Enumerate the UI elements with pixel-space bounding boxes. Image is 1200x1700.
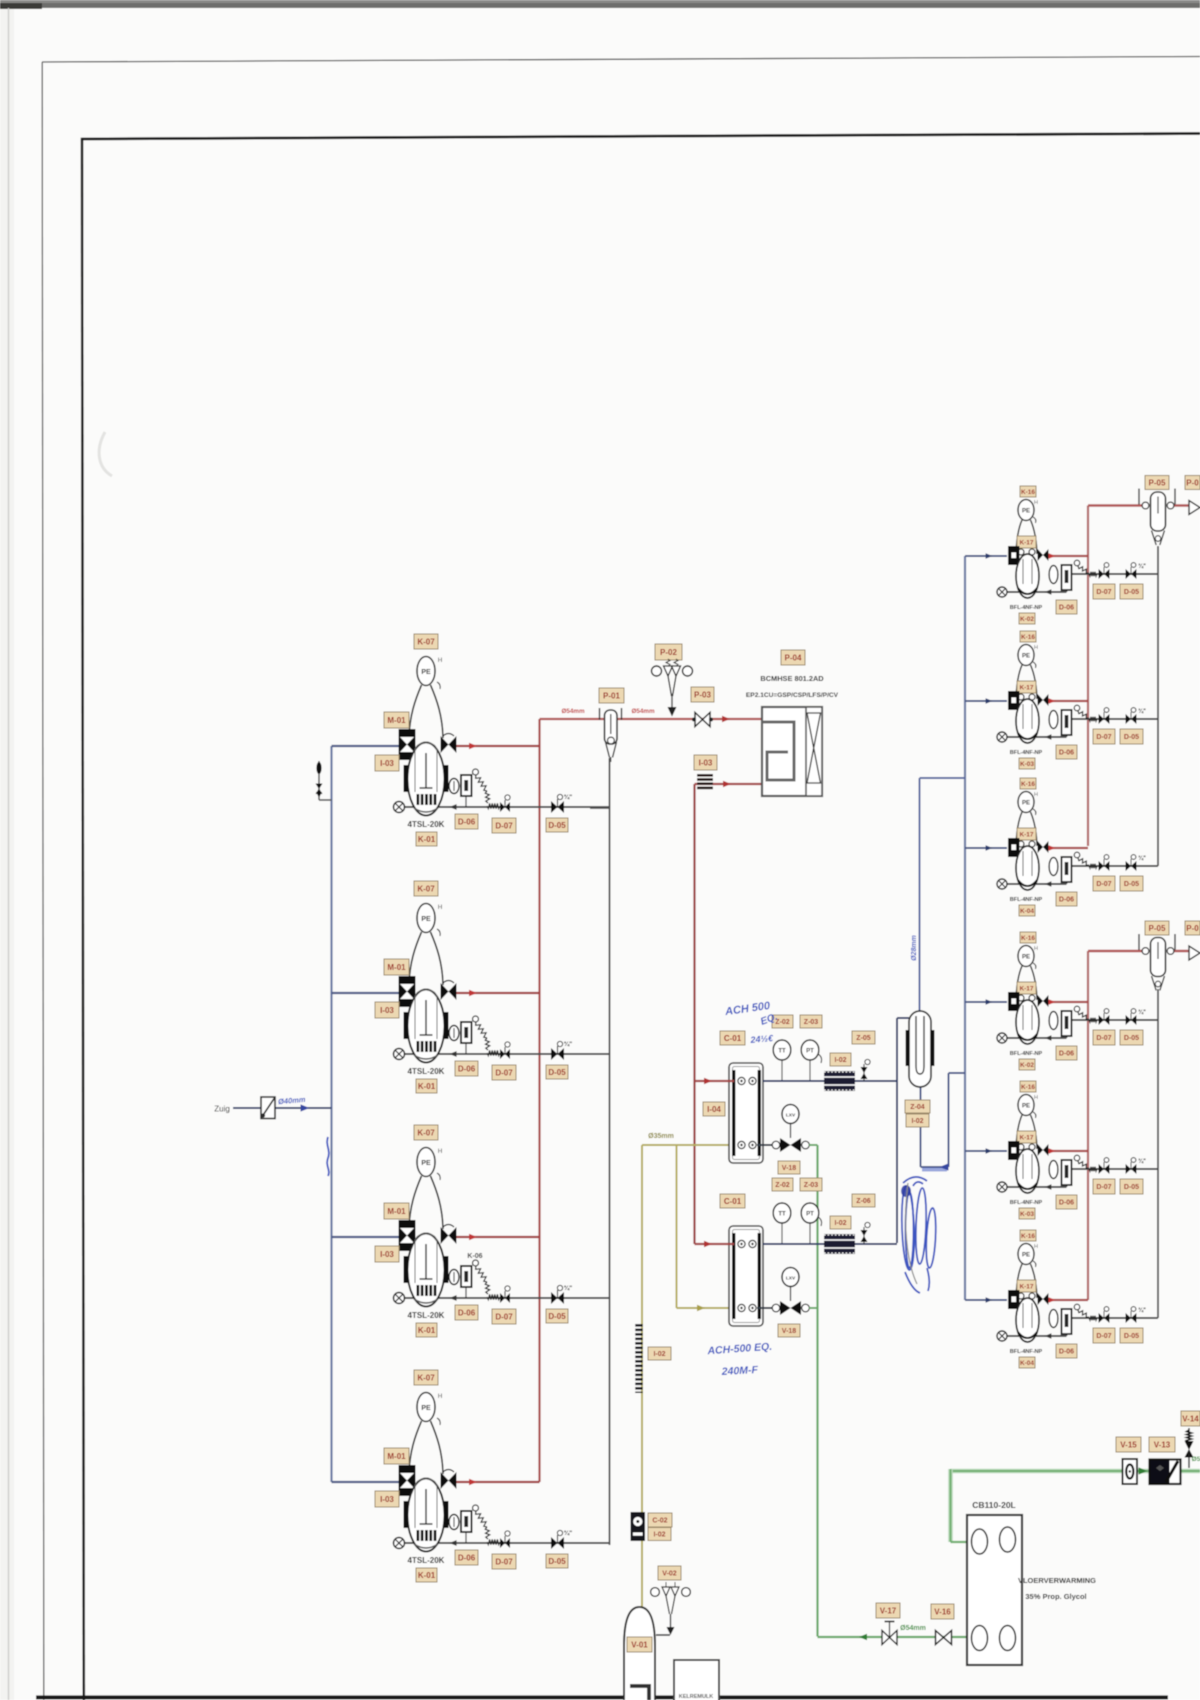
tag K-03	[1019, 1208, 1035, 1219]
tag D-07	[492, 1554, 516, 1569]
tag D-05	[1120, 729, 1143, 744]
flow arrow on drain	[1045, 1333, 1052, 1338]
wire: suction stub (blue)	[332, 1236, 400, 1238]
svg-text:V-18: V-18	[782, 1328, 797, 1335]
wire: crankcase drain (grey)	[1002, 1186, 1067, 1188]
wire: glycol supply main (green)	[951, 1469, 1200, 1474]
strainer on Zuig line	[261, 1097, 275, 1119]
compressor vessel	[1016, 554, 1039, 598]
svg-text:Z-03: Z-03	[804, 1182, 819, 1189]
motor block	[1008, 546, 1020, 565]
flow arrow (red)	[469, 743, 477, 749]
tag M-01	[384, 712, 409, 728]
tag D-07	[492, 1309, 516, 1324]
wire: crankcase drain (grey)	[1002, 1037, 1067, 1039]
inner thick border top	[82, 134, 1200, 140]
tag Z-06	[852, 1194, 875, 1207]
tag K-01	[416, 1323, 437, 1337]
svg-text:D-06: D-06	[458, 817, 476, 826]
wire: discharge stub (red)	[1047, 555, 1088, 557]
outer thin border left	[42, 62, 44, 1700]
svg-text:4TSL-20K: 4TSL-20K	[408, 1067, 445, 1076]
svg-text:D-05: D-05	[1124, 589, 1139, 596]
compressor vessel	[1016, 699, 1039, 743]
svg-text:Z-02: Z-02	[775, 1182, 790, 1189]
instrument PE bulb	[1018, 645, 1038, 669]
compressor vessel	[1016, 1000, 1039, 1044]
condensing unit K-03 #5 assembly	[965, 1148, 1158, 1189]
tag D-07	[1093, 1030, 1115, 1045]
flow arrow on Zuig line (blue)	[301, 1104, 310, 1111]
flow arrow (dark blue)	[986, 1297, 993, 1302]
svg-text:BCMHSE 801.2AD: BCMHSE 801.2AD	[760, 674, 824, 683]
wire: oil vertical group1 (right, grey)	[1157, 546, 1159, 866]
motor/solenoid block	[399, 1220, 416, 1251]
tag K-17	[1017, 982, 1036, 994]
tag K-07	[414, 1125, 438, 1140]
heater C-02 / I-02 on glycol line	[635, 1324, 643, 1393]
oil gauge	[1049, 1012, 1058, 1030]
valve D-05 (3/4")	[1126, 1307, 1147, 1323]
tag K-17	[1017, 828, 1036, 840]
svg-text:D-06: D-06	[1059, 1200, 1074, 1207]
compressor vessel	[1016, 846, 1039, 890]
wire: expansion outlet (green)	[809, 1144, 818, 1146]
flow arrow on drain	[1045, 881, 1052, 886]
tag D-07	[1093, 729, 1115, 744]
svg-text:D-06: D-06	[1059, 1349, 1074, 1356]
svg-text:V-17: V-17	[880, 1606, 897, 1615]
spring relief + capillary	[1074, 1155, 1080, 1161]
svg-text:D-05: D-05	[1124, 1184, 1139, 1191]
shoulder ports	[1018, 995, 1024, 1001]
motor block	[1008, 1290, 1020, 1309]
flow arrow (red)	[469, 1234, 477, 1240]
plate heat exchanger C-01 #2	[729, 1226, 763, 1326]
vessel neck	[1016, 520, 1037, 554]
spring relief + capillary	[1074, 1304, 1080, 1310]
compressor vessel	[1016, 1149, 1039, 1193]
flow arrow into V-13 (green)	[1139, 1467, 1148, 1474]
tag D-05	[546, 1554, 568, 1568]
svg-text:D-07: D-07	[495, 821, 513, 830]
faint scan smudge	[99, 432, 112, 476]
svg-text:PE: PE	[421, 916, 431, 923]
svg-text:I-03: I-03	[380, 1495, 394, 1504]
valve D-05 (3/4")	[1126, 1009, 1147, 1025]
svg-text:V-18: V-18	[782, 1165, 797, 1172]
wire: liquid out to expansion valve	[757, 1307, 779, 1309]
svg-text:PE: PE	[421, 669, 431, 676]
svg-text:TT: TT	[778, 1049, 786, 1055]
oil level gauge	[449, 1026, 459, 1041]
tag P-05	[1145, 476, 1169, 490]
instrument PE bulb	[417, 657, 442, 690]
svg-text:I-04: I-04	[707, 1105, 721, 1114]
tag K-16	[1020, 932, 1036, 943]
svg-text:K-04: K-04	[1020, 1360, 1034, 1367]
instrument PE bulb	[1018, 946, 1038, 970]
spring relief + capillary	[473, 1016, 479, 1022]
oil gauge	[1049, 1310, 1058, 1328]
vessel neck (teardrop)	[409, 1421, 443, 1474]
svg-text:I-03: I-03	[380, 759, 394, 768]
tag K-04	[1019, 905, 1035, 916]
oil filter box	[1062, 1011, 1072, 1036]
wire: crankcase drain (grey)	[1002, 736, 1067, 738]
svg-text:M-01: M-01	[387, 963, 406, 972]
svg-text:Z-06: Z-06	[856, 1198, 871, 1205]
svg-text:K-07: K-07	[417, 884, 435, 893]
svg-text:P-05: P-05	[1149, 924, 1166, 933]
wire: discharge stub (red)	[1047, 1150, 1088, 1152]
svg-text:Ø35mm: Ø35mm	[648, 1133, 674, 1140]
tag C-01	[720, 1031, 745, 1045]
svg-text:K-16: K-16	[1021, 781, 1035, 788]
shoulder ports	[1018, 1144, 1024, 1150]
tag V-17	[876, 1603, 900, 1618]
svg-text:P-02: P-02	[660, 648, 677, 657]
valve D-07	[1099, 855, 1110, 871]
instrument PE bulb	[1018, 1095, 1038, 1119]
motor/solenoid block	[399, 729, 416, 760]
svg-text:H: H	[1034, 645, 1038, 651]
oil drain valve (circle-X)	[997, 1033, 1007, 1043]
tag D-06	[1056, 1195, 1077, 1209]
svg-text:4TSL-20K: 4TSL-20K	[408, 1556, 445, 1565]
tag P-0	[1185, 921, 1200, 935]
instrument PT	[801, 1203, 821, 1243]
svg-text:BFL-4NF-NP: BFL-4NF-NP	[1010, 750, 1043, 756]
wire: jog riser (blue)	[948, 1073, 950, 1167]
tag D-05	[546, 1309, 568, 1323]
tag K-16	[1020, 1230, 1036, 1241]
flow arrow (dark blue)	[986, 999, 993, 1004]
wire: Z-04 outlet jog (blue)	[921, 1166, 949, 1168]
svg-text:K-17: K-17	[1019, 1134, 1033, 1141]
svg-text:P-05: P-05	[1149, 478, 1166, 487]
suction accumulator coil I-02	[824, 1071, 855, 1091]
tag D-06	[455, 814, 478, 829]
flow arrow on drain	[449, 1295, 456, 1301]
oil filter box	[1062, 710, 1072, 735]
wire: glycol return bottom (green)	[818, 1636, 974, 1638]
compressor vessel	[1016, 1298, 1039, 1342]
flow arrow on drain	[1045, 734, 1052, 739]
svg-text:D-06: D-06	[458, 1308, 476, 1317]
svg-text:D-07: D-07	[1096, 1035, 1111, 1042]
valve D-07 (on drain line)	[500, 795, 510, 812]
svg-text:Z-03: Z-03	[804, 1019, 819, 1026]
svg-text:Z-04: Z-04	[910, 1104, 925, 1111]
condensing unit K-02 #1 assembly	[965, 553, 1158, 594]
svg-text:K-17: K-17	[1019, 539, 1033, 546]
svg-text:24½€: 24½€	[749, 1033, 774, 1045]
svg-text:P-04: P-04	[785, 653, 802, 662]
tag D-05	[546, 1065, 568, 1079]
wire: oil return line (grey)	[1067, 573, 1159, 575]
svg-text:V-15: V-15	[1120, 1440, 1137, 1449]
tag P-05	[1145, 921, 1169, 935]
tag D-07	[1093, 1179, 1115, 1194]
svg-text:C-02: C-02	[652, 1518, 667, 1525]
svg-text:Z-05: Z-05	[856, 1035, 871, 1042]
tag K-17	[1017, 536, 1036, 548]
tag D-07	[1093, 1328, 1115, 1343]
svg-text:¾": ¾"	[564, 1529, 573, 1537]
pencil stroke over sketch	[906, 1183, 917, 1284]
oil gauge	[1049, 566, 1058, 584]
tag I-02	[648, 1528, 671, 1541]
wire: suction outlet (dark blue)	[763, 1243, 897, 1245]
wire: liquid out to expansion valve	[757, 1144, 779, 1146]
motor block	[1008, 1141, 1020, 1160]
vessel neck	[1016, 1264, 1037, 1298]
svg-text:K-01: K-01	[418, 1326, 436, 1335]
instrument PE bulb	[417, 1393, 442, 1426]
svg-text:M-01: M-01	[387, 716, 406, 725]
vessel neck (teardrop)	[409, 1176, 443, 1229]
motor/solenoid block	[399, 976, 416, 1007]
svg-text:D-07: D-07	[1096, 1184, 1111, 1191]
discharge valve	[1038, 1293, 1049, 1305]
svg-text:K-03: K-03	[1020, 761, 1034, 768]
tag D-06	[1056, 892, 1077, 906]
svg-text:PE: PE	[1022, 1104, 1030, 1110]
spring relief + capillary	[1074, 560, 1080, 566]
vent/charge valve near K-01 #1	[316, 761, 332, 800]
oil drain valve (circle-X)	[394, 802, 405, 813]
valve D-07 (on drain line)	[500, 1286, 510, 1303]
motor/solenoid block	[399, 1465, 416, 1496]
tag K-07	[414, 881, 438, 896]
svg-text:D-07: D-07	[495, 1312, 513, 1321]
oil gauge	[1049, 858, 1058, 876]
svg-text:M-01: M-01	[387, 1452, 406, 1461]
wire: oil return line (grey)	[1067, 1019, 1159, 1021]
tag D-07	[1093, 876, 1115, 891]
svg-text:K-17: K-17	[1019, 831, 1033, 838]
svg-text:BFL-4NF-NP: BFL-4NF-NP	[1010, 1349, 1043, 1355]
tag M-01	[384, 1448, 409, 1464]
svg-text:D-05: D-05	[1124, 734, 1139, 741]
oil drain valve (circle-X)	[394, 1538, 405, 1549]
tag P-02	[655, 644, 682, 660]
svg-text:¾": ¾"	[1138, 1009, 1146, 1016]
tag P-03	[691, 687, 714, 702]
flow arrow (red)	[469, 1479, 477, 1485]
tag D-05	[1120, 1328, 1143, 1343]
svg-text:VLOERVERWARMING: VLOERVERWARMING	[1018, 1576, 1096, 1585]
wire: discharge stub (red)	[1047, 1299, 1088, 1301]
motor block	[1008, 992, 1020, 1011]
svg-text:Ø28mm: Ø28mm	[911, 935, 918, 961]
svg-text:4TSL-20K: 4TSL-20K	[408, 820, 445, 829]
wire: expansion outlet (green)	[809, 1307, 818, 1309]
hand-drawn compressor sketch (blue ballpoint)	[901, 1177, 938, 1293]
svg-text:D-06: D-06	[458, 1064, 476, 1073]
svg-text:Ø54mm: Ø54mm	[631, 708, 655, 715]
tag D-06	[455, 1550, 478, 1565]
wire: refrigerant inlet (red)	[695, 1243, 735, 1245]
vessel neck	[1016, 1115, 1037, 1149]
compressor body vessel	[408, 1479, 445, 1552]
valve D-07	[1099, 708, 1110, 724]
svg-text:I-03: I-03	[699, 758, 713, 767]
oil filter box	[461, 1266, 472, 1298]
bleed valve Z-05	[861, 1059, 871, 1081]
tag I-03	[375, 1491, 399, 1507]
compressor K-01 unit 2 assembly	[332, 990, 610, 1057]
valve D-05 (3/4")	[551, 1284, 572, 1304]
svg-text:K-16: K-16	[1021, 1233, 1035, 1240]
wire: glycol feed to C-01 #2 (yellow)	[677, 1307, 735, 1309]
wire: oil drain line (grey)	[399, 1053, 610, 1055]
instrument PE bulb	[417, 1148, 442, 1181]
svg-text:¾": ¾"	[1138, 708, 1146, 715]
tag V-16	[931, 1604, 954, 1619]
tag K-16	[1020, 1081, 1036, 1092]
svg-text:D-06: D-06	[1059, 750, 1074, 757]
wire: oil drain line (grey)	[399, 1542, 610, 1544]
wire: discharge stub (red)	[1047, 847, 1088, 849]
svg-text:D-05: D-05	[548, 821, 566, 830]
svg-text:4TSL-20K: 4TSL-20K	[408, 1311, 445, 1320]
svg-text:¾": ¾"	[564, 1284, 573, 1292]
wire: P-01 oil outlet (grey)	[610, 757, 612, 762]
svg-text:H: H	[438, 1149, 442, 1155]
wire: suction stub (blue)	[965, 1299, 1007, 1301]
oil drain valve (circle-X)	[997, 1182, 1007, 1192]
valve D-05 (3/4")	[1126, 563, 1147, 579]
svg-text:PT: PT	[806, 1212, 814, 1218]
svg-text:V-02: V-02	[662, 1571, 677, 1578]
expansion valve LXV	[772, 1105, 809, 1153]
svg-text:M-01: M-01	[387, 1207, 406, 1216]
svg-text:H: H	[438, 905, 442, 911]
tag C-02	[648, 1513, 672, 1527]
tag Z-03	[800, 1178, 822, 1191]
wire: evaporator outlets riser (dark blue)	[896, 1018, 898, 1243]
tag I-02	[830, 1053, 851, 1066]
svg-text:¾": ¾"	[1138, 855, 1146, 862]
svg-text:K-06: K-06	[467, 1253, 482, 1260]
discharge valve	[1038, 995, 1049, 1007]
tag K-17	[1017, 681, 1036, 693]
wire: suction header vertical (left, blue)	[330, 746, 332, 1482]
svg-text:H: H	[1034, 946, 1038, 952]
wire: crankcase drain (grey)	[1002, 1335, 1067, 1337]
wire: glycol feed to C-01 #1 (yellow)	[642, 1144, 734, 1146]
instrument TT	[773, 1203, 791, 1243]
tag K-02	[1019, 1059, 1035, 1070]
flow arrow on drain	[1045, 1184, 1052, 1189]
svg-text:¾": ¾"	[564, 1040, 573, 1048]
wire: oil return line (grey)	[1067, 1317, 1159, 1319]
tag I-02	[648, 1347, 671, 1360]
tag V-15	[1116, 1437, 1141, 1452]
svg-text:V-14: V-14	[1182, 1414, 1199, 1423]
tag D-07	[492, 1065, 516, 1080]
wire: suction stub (blue)	[965, 1001, 1007, 1003]
tag V-02	[658, 1566, 681, 1580]
svg-text:PE: PE	[1022, 955, 1030, 961]
svg-text:V-01: V-01	[631, 1640, 648, 1649]
condensing unit K-04 #6 assembly	[965, 1297, 1158, 1338]
svg-text:D-05: D-05	[548, 1557, 566, 1566]
tag D-05	[1120, 1030, 1143, 1045]
svg-text:BFL-4NF-NP: BFL-4NF-NP	[1010, 1051, 1043, 1057]
compressor K-01 unit 4 assembly	[332, 1479, 610, 1546]
svg-text:D-07: D-07	[1096, 589, 1111, 596]
tag D-06	[1056, 1046, 1077, 1060]
svg-text:PE: PE	[1022, 801, 1030, 807]
tag V-18	[778, 1324, 800, 1337]
valve D-07 (on drain line)	[500, 1531, 510, 1548]
svg-text:PE: PE	[1022, 509, 1030, 515]
svg-text:K-01: K-01	[418, 1571, 436, 1580]
wire: discharge vertical group2 (right, red)	[1087, 951, 1089, 1300]
wire: suction stub (blue)	[332, 1481, 400, 1483]
valve D-07	[1099, 1158, 1110, 1174]
plate heat exchanger C-01 #1	[729, 1063, 763, 1163]
svg-text:I-02: I-02	[653, 1532, 665, 1539]
tag K-17	[1017, 1131, 1036, 1143]
wire: discharge stub (red)	[1047, 700, 1088, 702]
shoulder ports	[1018, 841, 1024, 847]
svg-text:K-01: K-01	[418, 1082, 436, 1091]
wire: suction stub (blue)	[332, 992, 400, 994]
tag K-16	[1020, 631, 1036, 642]
tag V-14	[1181, 1411, 1200, 1426]
wire: crankcase drain (grey)	[1002, 591, 1067, 593]
wire: discharge stub (red)	[456, 1236, 540, 1238]
svg-text:K-16: K-16	[1021, 489, 1035, 496]
flow arrow (red)	[1049, 999, 1056, 1004]
wire: suction stub (blue)	[332, 745, 400, 747]
tag P-01	[599, 688, 624, 703]
svg-text:240M-F: 240M-F	[720, 1364, 758, 1378]
bottom equipment box	[674, 1660, 719, 1700]
svg-text:V-16: V-16	[934, 1607, 951, 1616]
flow arrow into sketch (blue)	[940, 1163, 949, 1170]
svg-text:K-02: K-02	[1020, 616, 1034, 623]
vessel neck	[1016, 966, 1037, 1000]
tag Z-02	[772, 1178, 793, 1191]
flow arrow (red)	[1049, 698, 1056, 703]
wire: suction outlet (dark blue)	[763, 1080, 897, 1082]
svg-text:CB110-20L: CB110-20L	[972, 1500, 1015, 1510]
wire: riser into Z-04 top (dark blue)	[897, 1017, 909, 1019]
tag K-01	[416, 1568, 437, 1582]
bleed valve Z-06	[861, 1222, 871, 1244]
svg-text:D-07: D-07	[1096, 734, 1111, 741]
svg-text:D-06: D-06	[1059, 1051, 1074, 1058]
wire: discharge stub (red)	[1047, 1001, 1088, 1003]
oil level gauge	[449, 1270, 459, 1285]
wire: jog to main (blue)	[949, 1072, 966, 1074]
tag I-02	[906, 1114, 929, 1127]
motor block	[1008, 838, 1020, 857]
svg-text:P-0: P-0	[1186, 924, 1199, 933]
svg-text:D-05: D-05	[548, 1068, 566, 1077]
oil filter box	[1062, 1309, 1072, 1334]
svg-text:I-02: I-02	[911, 1118, 923, 1125]
valve D-07	[1099, 1009, 1110, 1025]
oil drain valve (circle-X)	[997, 587, 1007, 597]
expansion valve LXV	[772, 1268, 809, 1316]
svg-text:D-05: D-05	[548, 1312, 566, 1321]
